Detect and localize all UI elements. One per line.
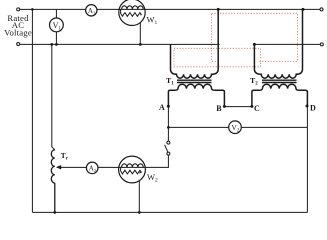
wattmeter W2 <box>119 156 146 183</box>
wire: B-C series link <box>224 106 252 108</box>
node B <box>223 105 226 108</box>
autotransformer Tr winding <box>51 150 55 183</box>
eraser over hidden part of box bottom <box>220 60 258 62</box>
junction: W2 potential drop on rail <box>138 211 141 214</box>
wire: corner up to switch <box>167 155 169 167</box>
wire: W2 potential drop to bottom rail <box>138 173 140 212</box>
red dashed box around T2 primary loop <box>212 13 298 61</box>
svg-text:Voltage: Voltage <box>4 27 32 37</box>
voltmeter V2 <box>229 121 242 134</box>
W1 current coil <box>122 6 144 10</box>
voltmeter V1 <box>50 18 64 32</box>
wire: V1 top stub <box>55 9 57 18</box>
wire: V2 line <box>168 126 307 128</box>
node C <box>250 105 253 108</box>
junction: T2 left lead on bottom AC line <box>253 43 256 46</box>
terminal: bottom right <box>320 43 323 46</box>
wire: A node vertical down to switch <box>167 106 169 142</box>
junction: W1 potential drop on bottom AC line <box>139 43 142 46</box>
red dashed box around T1 primary loop <box>174 48 260 67</box>
terminal: top right <box>320 8 323 11</box>
wire: bottom AC line left segment <box>20 43 220 45</box>
junction: V2 line on A vertical <box>167 126 170 129</box>
variac tap arrow <box>56 165 61 170</box>
wire: V1 bottom stub <box>55 32 57 45</box>
T1 core <box>177 79 212 81</box>
wire: Tr bottom lead to rail <box>54 183 56 212</box>
junction: T2 right lead on top AC line <box>302 8 305 11</box>
switch S upper contact <box>167 141 170 144</box>
wire: through W2 <box>119 166 146 168</box>
wire: through W1 <box>119 8 145 10</box>
transformer T2 <box>252 9 308 106</box>
wire: bottom AC line right segment <box>254 43 320 45</box>
junction: T1 right lead on top AC line <box>217 8 220 11</box>
wire: top AC line <box>20 8 321 10</box>
T1 primary <box>171 9 219 78</box>
terminal: supply bottom left <box>17 43 20 46</box>
transformer T1 <box>168 9 224 106</box>
node A <box>167 105 170 108</box>
T2 primary <box>254 9 302 78</box>
switch S <box>165 141 170 155</box>
wire: vertical from bottom AC line down to variac top <box>52 44 55 149</box>
svg-text:A: A <box>159 103 165 112</box>
switch S lower contact <box>167 152 170 155</box>
junction: variac feed on bottom AC line <box>50 43 53 46</box>
svg-text:D: D <box>310 103 316 112</box>
junction: left vertical on top AC line <box>31 8 34 11</box>
T2 core <box>262 79 297 81</box>
ammeter A1 <box>86 5 97 16</box>
W2 potential coil resistor <box>121 167 142 174</box>
junction: variac bottom on rail <box>53 211 56 214</box>
wire: injection line arrow->A2->W2->corner <box>60 166 169 168</box>
ammeter A2 <box>86 162 98 174</box>
W2 current coil <box>122 164 144 168</box>
switch S blade <box>165 145 168 152</box>
wire: left vertical from top line down to bottom rail <box>31 9 33 212</box>
T1 secondary <box>168 84 224 106</box>
wire: D vertical down to bottom rail <box>306 106 308 212</box>
terminal: supply top left <box>17 8 20 11</box>
wattmeter W1 <box>119 0 145 26</box>
W1 potential coil resistor <box>121 9 142 16</box>
wire: W1 potential drop to bottom AC line <box>139 15 141 44</box>
T2 secondary <box>252 84 308 106</box>
node D <box>306 105 309 108</box>
svg-text:B: B <box>216 104 222 113</box>
junction: V1 stub on bottom AC line <box>55 43 58 46</box>
svg-text:C: C <box>254 104 260 113</box>
wire: bottom rail <box>32 211 307 213</box>
